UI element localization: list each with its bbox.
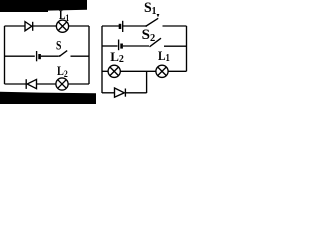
switch S2 blade [150, 38, 162, 47]
wire lamp row middle segment [120, 70, 156, 72]
label S (left circuit) [56, 39, 61, 52]
label S1 (right circuit) [144, 1, 157, 16]
wire branch2 left segment [102, 45, 118, 47]
wire top branch left segment [5, 25, 26, 27]
wire left vertical [4, 26, 6, 84]
wire top branch right segment [69, 25, 89, 27]
lamp L2b [108, 65, 120, 77]
label L1 (left circuit) [59, 9, 69, 23]
battery B3 long plate [118, 40, 120, 51]
wire branch2 right segment [164, 45, 187, 47]
wire middle branch left segment [5, 55, 35, 57]
switch S blade [60, 51, 68, 57]
diode D2 (points left) [25, 79, 27, 89]
battery B1 short plate [38, 54, 41, 59]
lamp L2 [56, 78, 68, 90]
lamp L1b [156, 65, 168, 77]
scan artifact black bar top-left [0, 0, 87, 12]
lamp L1 [56, 20, 68, 32]
switch S1 pivot [145, 25, 147, 27]
diode D3 (points right) [115, 88, 125, 97]
wire branch1 left segment [102, 25, 119, 27]
wire branch1 to switch S1 [123, 25, 146, 27]
wire bottom branch right segment [68, 83, 89, 85]
wire middle branch to switch [41, 55, 59, 57]
wire diode row right segment [125, 92, 146, 94]
wire lamp row right segment [168, 70, 186, 72]
wire right vertical [88, 26, 90, 84]
label L1 (right circuit) [158, 49, 170, 63]
diode D1 (points right) [25, 22, 32, 31]
battery B3 short plate [120, 44, 123, 49]
label L2 (left circuit) [57, 65, 68, 79]
wire branch1 right segment [163, 25, 187, 27]
scan artifact black bar bottom-left [0, 92, 96, 104]
battery B2 long plate [122, 21, 124, 32]
wire branch2 to switch S2 [123, 45, 149, 47]
label L2 (right circuit) [110, 50, 124, 64]
wire right vertical [186, 26, 188, 71]
wire lamp row left segment [102, 70, 108, 72]
switch S1 contact tick [157, 14, 160, 17]
switch S1 blade [146, 18, 158, 26]
wire left vertical [101, 26, 103, 93]
battery B1 long plate [36, 51, 38, 61]
switch S pivot [59, 55, 61, 57]
wire diode row left segment [102, 92, 115, 94]
battery B2 short plate [119, 24, 122, 29]
wire middle branch right segment [71, 55, 90, 57]
wire top branch middle segment [33, 25, 57, 27]
label S2 (right circuit) [142, 28, 156, 43]
node junction vertical [146, 71, 148, 93]
wire bottom branch middle segment [37, 83, 56, 85]
wire bottom branch left segment [5, 83, 27, 85]
